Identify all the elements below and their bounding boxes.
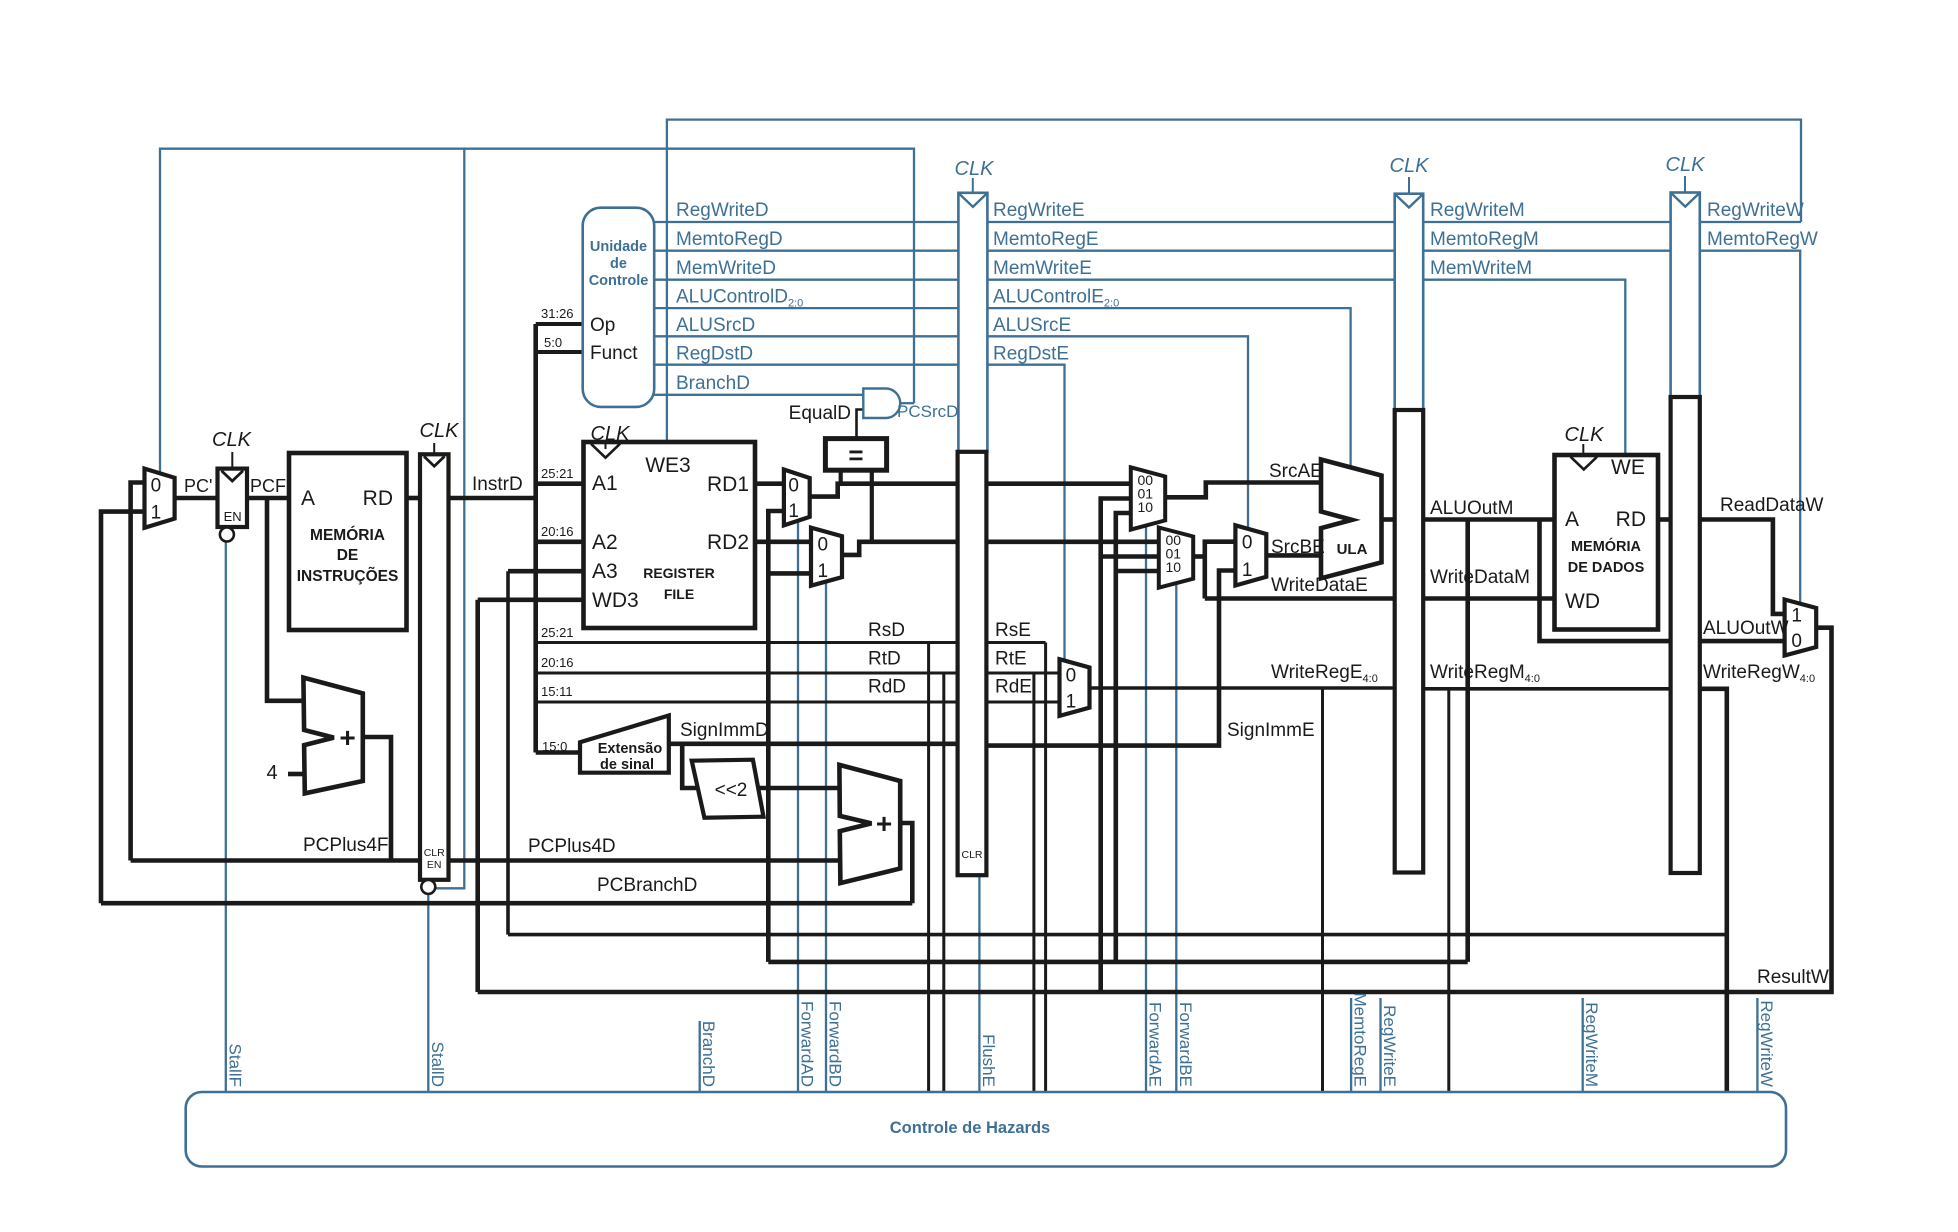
- svg-text:MemtoRegE: MemtoRegE: [993, 229, 1099, 250]
- svg-text:RD1: RD1: [707, 473, 749, 496]
- wire ALUOutW to ResultW mux input 0: [1700, 639, 1785, 644]
- wire memory RD to register W: [1658, 517, 1671, 522]
- svg-text:ALUControlE2:0: ALUControlE2:0: [993, 287, 1119, 310]
- control unit: [583, 208, 655, 407]
- svg-text:RegWriteE: RegWriteE: [993, 200, 1085, 221]
- svg-text:MemWriteE: MemWriteE: [993, 258, 1092, 279]
- wire ForwardBD to hazard unit: [825, 582, 827, 1093]
- wire PCPlus4 adder output: [363, 737, 391, 861]
- svg-text:de sinal: de sinal: [600, 757, 654, 773]
- wire ALUControlD: [654, 307, 958, 309]
- svg-text:InstrD: InstrD: [472, 474, 523, 495]
- svg-text:4: 4: [266, 762, 277, 784]
- svg-text:RD: RD: [1616, 508, 1646, 531]
- wire branch adder output: [901, 823, 913, 903]
- svg-text:RtD: RtD: [868, 649, 901, 670]
- wire SrcAE to ULA: [1165, 483, 1320, 498]
- svg-text:31:26: 31:26: [541, 306, 574, 321]
- wire RdE row: [987, 701, 1060, 704]
- wire WriteRegM to hazard unit: [1447, 689, 1450, 1093]
- svg-text:CLK: CLK: [955, 158, 996, 180]
- svg-text:10: 10: [1137, 499, 1153, 515]
- svg-text:FlushE: FlushE: [979, 1034, 998, 1087]
- svg-text:20:16: 20:16: [541, 524, 574, 539]
- svg-text:Funct: Funct: [590, 343, 638, 364]
- wire SignImmD row: [669, 741, 958, 746]
- wire ALUSrcD: [654, 335, 958, 337]
- wire WriteRegW return row: [508, 933, 1727, 937]
- svg-text:MemWriteD: MemWriteD: [676, 258, 776, 279]
- wire WriteDataM row: [1423, 596, 1554, 601]
- register M pipeline bar black section: [1395, 410, 1424, 873]
- wire ALUOutM forward to ForwardBD mux input 1: [768, 571, 811, 576]
- wire RegWriteM: [1423, 221, 1670, 223]
- wire instruction bus vertical: [533, 324, 538, 753]
- clock input register M: [1408, 177, 1410, 193]
- svg-text:WriteDataE: WriteDataE: [1271, 575, 1368, 596]
- clock input register E: [972, 178, 974, 192]
- svg-text:PCPlus4F: PCPlus4F: [303, 835, 389, 856]
- svg-text:DE: DE: [337, 547, 359, 564]
- svg-text:BranchD: BranchD: [676, 373, 750, 394]
- svg-text:CLK: CLK: [420, 420, 461, 442]
- wire ALUOutM forward to SrcBE mux input 10: [1116, 569, 1159, 574]
- register D pipeline bar: [420, 454, 449, 880]
- wire 25:21 to A1: [536, 481, 584, 486]
- wire BranchD stub to hazard unit: [699, 1021, 701, 1092]
- svg-text:PCF: PCF: [250, 476, 286, 496]
- svg-text:MEMÓRIA: MEMÓRIA: [1571, 537, 1642, 555]
- svg-text:0: 0: [1242, 533, 1253, 554]
- svg-text:15:11: 15:11: [541, 684, 573, 699]
- memory instruction memory: [289, 453, 407, 630]
- svg-text:CLK: CLK: [591, 423, 632, 445]
- enable bubble register D: [421, 880, 435, 894]
- svg-text:ForwardBE: ForwardBE: [1176, 1002, 1195, 1087]
- svg-text:Controle: Controle: [589, 273, 649, 289]
- clock input PC: [231, 452, 233, 467]
- wire RD1 to ForwardAD mux: [755, 481, 784, 486]
- shifter left 2: [692, 760, 764, 818]
- svg-text:25:21: 25:21: [541, 625, 574, 640]
- svg-text:=: =: [848, 440, 863, 470]
- svg-text:RD: RD: [363, 487, 393, 510]
- svg-text:1: 1: [788, 501, 799, 522]
- svg-text:EN: EN: [427, 859, 442, 871]
- gate AND branch: [863, 389, 900, 419]
- svg-text:ForwardBD: ForwardBD: [826, 1001, 845, 1087]
- wire RsE row: [987, 641, 1046, 644]
- svg-text:1: 1: [1066, 691, 1077, 712]
- svg-text:ULA: ULA: [1337, 541, 1368, 558]
- wire RegWriteE: [987, 221, 1394, 223]
- svg-text:1: 1: [817, 561, 828, 582]
- svg-text:RegWriteM: RegWriteM: [1582, 1002, 1601, 1087]
- wire StallF to hazard unit: [225, 542, 227, 1093]
- wire RD to register D: [407, 496, 421, 501]
- svg-text:ALUControlD2:0: ALUControlD2:0: [676, 287, 803, 310]
- svg-text:ALUOutM: ALUOutM: [1430, 498, 1513, 519]
- wire WriteRegW riser to A3: [506, 571, 510, 934]
- svg-text:RegDstD: RegDstD: [676, 344, 753, 365]
- register M pipeline bar blue section: [1395, 194, 1424, 410]
- wire PCSrcD top rail: [160, 149, 914, 473]
- svg-text:15:0: 15:0: [542, 739, 567, 754]
- svg-text:StallF: StallF: [225, 1044, 244, 1087]
- adder PCPlus4: [303, 678, 362, 794]
- svg-text:PCPlus4D: PCPlus4D: [528, 836, 616, 857]
- svg-text:CLK: CLK: [1666, 154, 1707, 176]
- wire RegDstE to WriteReg mux select: [987, 365, 1064, 661]
- wire PCBranchD up to PC mux input 1: [101, 512, 145, 904]
- svg-text:ForwardAE: ForwardAE: [1146, 1002, 1165, 1087]
- svg-text:25:21: 25:21: [541, 466, 574, 481]
- wire PCPlus4D row: [449, 858, 839, 863]
- svg-text:ALUOutW: ALUOutW: [1703, 618, 1789, 639]
- svg-text:0: 0: [151, 476, 162, 497]
- wire ALUSrcE to SrcB mux select: [987, 336, 1248, 529]
- wire ALUOutM forward riser E stage: [1116, 513, 1131, 962]
- wire ALUOutM forward riser to decode muxes: [768, 511, 784, 962]
- svg-text:CLR: CLR: [961, 849, 982, 861]
- wire MemtoRegW to ResultW mux select: [1700, 251, 1800, 604]
- svg-text:INSTRUÇÕES: INSTRUÇÕES: [297, 567, 399, 585]
- wire WriteRegM row: [1423, 687, 1670, 691]
- wire MemtoRegE stub to hazard unit: [1350, 998, 1352, 1092]
- mux SrcBE: [1159, 528, 1193, 588]
- svg-text:RdE: RdE: [995, 677, 1032, 698]
- svg-text:CLR: CLR: [424, 847, 445, 859]
- svg-text:EN: EN: [224, 509, 242, 524]
- clock input data memory: [1582, 444, 1584, 454]
- mux ALUSrc: [1235, 525, 1266, 585]
- svg-text:1: 1: [151, 503, 162, 524]
- wire ALUControlE to ULA: [987, 308, 1350, 466]
- svg-text:BranchD: BranchD: [699, 1021, 718, 1087]
- wire MemWriteE: [987, 279, 1394, 281]
- wire RegWriteM stub to hazard unit: [1582, 998, 1584, 1092]
- svg-text:+: +: [339, 722, 355, 753]
- svg-text:0: 0: [1791, 631, 1802, 652]
- svg-text:MemtoRegE: MemtoRegE: [1351, 993, 1370, 1087]
- wire RtE row: [987, 672, 1060, 675]
- register W pipeline bar black section: [1671, 397, 1700, 873]
- wire WriteDataE row: [1205, 596, 1395, 601]
- wire RegDstD: [654, 364, 958, 366]
- svg-text:Unidade: Unidade: [590, 239, 647, 255]
- svg-text:WE3: WE3: [645, 454, 691, 477]
- svg-text:ReadDataW: ReadDataW: [1720, 495, 1824, 516]
- svg-text:5:0: 5:0: [544, 335, 562, 350]
- svg-text:FILE: FILE: [664, 586, 694, 602]
- svg-text:WriteRegW4:0: WriteRegW4:0: [1703, 662, 1815, 685]
- svg-text:MemtoRegM: MemtoRegM: [1430, 229, 1539, 250]
- clock input register file: [605, 443, 607, 449]
- svg-text:RegWriteM: RegWriteM: [1430, 200, 1525, 221]
- svg-text:SignImmE: SignImmE: [1227, 720, 1315, 741]
- wire BranchD: [654, 394, 863, 396]
- mux ForwardAD: [784, 470, 810, 526]
- sign extension unit: [580, 716, 669, 773]
- svg-text:RsD: RsD: [868, 620, 905, 641]
- svg-text:WriteRegM4:0: WriteRegM4:0: [1430, 662, 1540, 685]
- svg-text:PC': PC': [184, 476, 212, 496]
- wire PCSrcD branch to register D CLR: [436, 149, 464, 889]
- svg-text:REGISTER: REGISTER: [643, 565, 715, 581]
- svg-text:RD2: RD2: [707, 531, 749, 554]
- wire ALUOutW drop: [1540, 520, 1671, 642]
- wire PCBranchD row: [101, 901, 912, 906]
- wire Op field to control unit: [536, 322, 583, 326]
- svg-text:WD3: WD3: [592, 589, 639, 612]
- wire RsD to hazard unit: [927, 643, 930, 1094]
- svg-text:RdD: RdD: [868, 677, 906, 698]
- svg-text:ResultW: ResultW: [1757, 967, 1829, 988]
- wire shifter output to branch adder: [758, 786, 838, 791]
- svg-text:PCBranchD: PCBranchD: [597, 875, 697, 896]
- svg-text:WD: WD: [1565, 590, 1600, 613]
- svg-text:RsE: RsE: [995, 620, 1031, 641]
- svg-text:WriteRegE4:0: WriteRegE4:0: [1271, 662, 1378, 685]
- wire 20:16 to A2: [536, 539, 584, 544]
- svg-text:<<2: <<2: [715, 780, 748, 801]
- wire InstrD: [449, 496, 536, 501]
- svg-text:StallD: StallD: [428, 1042, 447, 1087]
- svg-text:MemWriteM: MemWriteM: [1430, 258, 1532, 279]
- svg-text:1: 1: [1242, 560, 1253, 581]
- wire MemWriteD: [654, 279, 958, 281]
- wire PC-prime from mux to PC register: [175, 496, 218, 501]
- wire MemtoRegM: [1423, 250, 1670, 252]
- adder branch target: [839, 765, 900, 883]
- wire RD2E to SrcBE mux: [987, 539, 1159, 544]
- wire ALUOutM return row: [768, 960, 1467, 965]
- memory data memory: [1555, 455, 1659, 630]
- wire RtE to hazard unit: [1032, 673, 1035, 1093]
- wire SrcBE mux output node: [1193, 554, 1205, 559]
- wire RdD row: [536, 701, 958, 704]
- wire FlushE to hazard unit: [978, 875, 980, 1092]
- svg-text:20:16: 20:16: [541, 655, 574, 670]
- wire Funct field to control unit: [536, 350, 583, 354]
- svg-text:CLK: CLK: [1565, 424, 1606, 446]
- wire ForwardAE to hazard unit: [1145, 526, 1147, 1092]
- wire WriteRegW loop: [1700, 689, 1727, 1093]
- svg-text:RegWriteW: RegWriteW: [1757, 1000, 1776, 1087]
- wire RD2 to ForwardBD mux: [755, 539, 811, 544]
- svg-text:RegWriteD: RegWriteD: [676, 200, 769, 221]
- svg-text:RegWriteE: RegWriteE: [1380, 1005, 1399, 1087]
- wire EqualD to AND gate: [857, 410, 864, 439]
- svg-text:CLK: CLK: [212, 429, 253, 451]
- mux WriteRegE: [1060, 659, 1090, 716]
- wire SrcBE to ULA: [1266, 553, 1320, 558]
- svg-text:A: A: [301, 487, 315, 510]
- wire ForwardAD mux output to register E: [810, 484, 958, 497]
- svg-text:MemtoRegD: MemtoRegD: [676, 229, 783, 250]
- wire RegWriteD: [654, 221, 958, 223]
- wire ALUOutM row: [1423, 517, 1554, 522]
- svg-text:WriteDataM: WriteDataM: [1430, 567, 1530, 588]
- wire RegWriteW stub to hazard unit: [1756, 998, 1758, 1092]
- svg-text:SrcBE: SrcBE: [1271, 537, 1325, 558]
- wire MemtoRegD: [654, 250, 958, 252]
- wire constant 4 into adder: [288, 772, 304, 777]
- ULA: [1321, 460, 1382, 579]
- svg-text:PCSrcD: PCSrcD: [897, 402, 958, 421]
- svg-text:+: +: [876, 808, 892, 839]
- wire ResultW riser to WD3: [475, 600, 480, 992]
- hazard unit: [186, 1092, 1786, 1167]
- svg-text:de: de: [610, 256, 627, 272]
- wire RegWriteE stub to hazard unit: [1379, 998, 1381, 1092]
- wire RtD row: [536, 672, 958, 675]
- svg-text:MEMÓRIA: MEMÓRIA: [310, 526, 385, 544]
- wire SrcBE node to ALUSrc mux input 0: [1205, 542, 1236, 599]
- wire MemtoRegE: [987, 250, 1394, 252]
- svg-text:1: 1: [1791, 606, 1802, 627]
- wire PCF branch down to adder: [267, 498, 304, 701]
- mux ResultW: [1785, 600, 1817, 656]
- svg-text:SrcAE: SrcAE: [1269, 461, 1323, 482]
- svg-text:EqualD: EqualD: [789, 403, 851, 424]
- wire equality comparator input B: [870, 470, 874, 542]
- wire RegWriteW feedback top rail: [667, 120, 1801, 442]
- mux SrcAE: [1131, 467, 1165, 529]
- comparator EqualD: [825, 439, 886, 471]
- wire RsE to hazard unit: [1044, 643, 1047, 1094]
- wire PCPlus4F up to PC mux input 0: [131, 483, 145, 861]
- svg-text:WE: WE: [1611, 456, 1645, 479]
- svg-text:A2: A2: [592, 531, 618, 554]
- mux PC source select: [145, 469, 175, 528]
- register W pipeline bar blue section: [1671, 193, 1700, 398]
- wire ResultW loop: [478, 628, 1832, 992]
- svg-text:Op: Op: [590, 315, 615, 336]
- wire WriteRegE row: [1090, 686, 1395, 690]
- register E pipeline bar black section: [958, 452, 987, 875]
- wire SignImmE row: [987, 571, 1235, 746]
- clock input register D: [433, 443, 435, 453]
- wire ForwardBE to hazard unit: [1175, 583, 1177, 1092]
- wire StallD to hazard unit: [427, 894, 429, 1092]
- wire WriteRegE to hazard unit: [1321, 688, 1324, 1093]
- wire 15:0 to sign extension: [536, 750, 580, 755]
- svg-text:A1: A1: [592, 472, 618, 495]
- svg-text:CLK: CLK: [1390, 155, 1431, 177]
- enable bubble PC register: [220, 528, 234, 542]
- svg-text:RtE: RtE: [995, 649, 1027, 670]
- svg-text:10: 10: [1165, 559, 1181, 575]
- svg-text:0: 0: [788, 476, 799, 497]
- svg-text:0: 0: [817, 534, 828, 555]
- svg-text:0: 0: [1066, 666, 1077, 687]
- wire ALUOutM return drop: [1465, 520, 1470, 962]
- wire ResultW to WD3: [478, 597, 584, 602]
- svg-text:A: A: [1565, 508, 1579, 531]
- register E pipeline bar blue section: [958, 193, 987, 452]
- wire WriteRegW to A3: [508, 569, 584, 574]
- wire equality comparator input A: [839, 470, 843, 484]
- wire SignImmD branch to shifter: [682, 744, 697, 788]
- svg-text:ALUSrcE: ALUSrcE: [993, 315, 1071, 336]
- wire PCF: [247, 496, 289, 501]
- wire ReadDataW to ResultW mux input 1: [1700, 520, 1785, 614]
- svg-text:ALUSrcD: ALUSrcD: [676, 315, 755, 336]
- svg-text:Extensão: Extensão: [598, 741, 663, 757]
- register file: [584, 442, 756, 628]
- wire AND gate output to PCSrcD rail: [899, 402, 914, 404]
- svg-text:MemtoRegW: MemtoRegW: [1707, 229, 1818, 250]
- svg-text:A3: A3: [592, 560, 618, 583]
- wire ForwardAD to hazard unit: [797, 521, 799, 1092]
- wire ResultW forward to SrcBE mux input 01: [1101, 554, 1159, 559]
- wire RsD row: [536, 641, 958, 644]
- register PC: [218, 469, 248, 527]
- svg-text:DE DADOS: DE DADOS: [1568, 560, 1645, 576]
- wire RtD to hazard unit: [942, 673, 945, 1093]
- svg-text:Controle de Hazards: Controle de Hazards: [890, 1119, 1050, 1137]
- mux ForwardBD: [811, 528, 842, 586]
- wire ForwardBD mux output to register E: [842, 542, 958, 555]
- svg-text:RegWriteW: RegWriteW: [1707, 200, 1804, 221]
- wire PCPlus4F row: [131, 858, 420, 863]
- wire RD1E to SrcAE mux: [987, 481, 1131, 486]
- wire ResultW forward riser: [1101, 499, 1131, 993]
- clock input register W: [1684, 176, 1686, 192]
- svg-text:ForwardAD: ForwardAD: [798, 1001, 817, 1087]
- svg-text:RegDstE: RegDstE: [993, 344, 1069, 365]
- wire MemWriteM to memory WE: [1423, 280, 1625, 455]
- svg-text:SignImmD: SignImmD: [680, 720, 769, 741]
- wire RegWriteW: [1700, 221, 1801, 223]
- wire ULA output to register M: [1382, 517, 1394, 522]
